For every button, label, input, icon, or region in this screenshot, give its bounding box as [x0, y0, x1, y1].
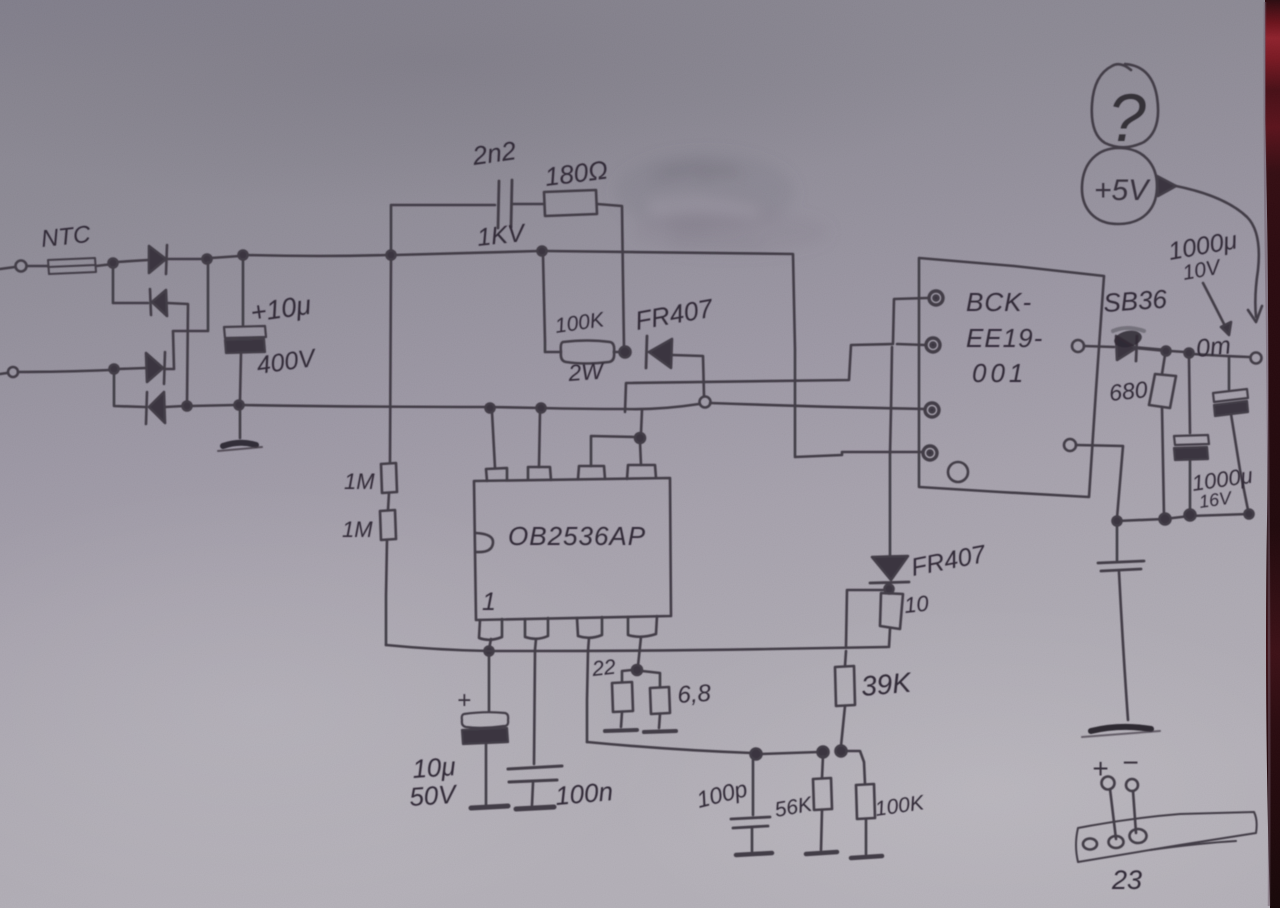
wire node J left to 22R: [622, 670, 632, 682]
wire pin3 bottom riser through rail down to feedback rail: [587, 638, 589, 742]
wire open node G to transformer pin3: [710, 403, 925, 409]
connector board outline: [1076, 812, 1257, 862]
resistor 39K body: [835, 666, 855, 706]
IC U1 notch: [476, 533, 493, 552]
connector + pad circle: [1102, 777, 1115, 790]
node E junction: [538, 247, 547, 256]
svg-text:OB2536AP: OB2536AP: [508, 521, 646, 551]
node ground rail 16V cap: [1185, 510, 1196, 521]
wire terminal to NTC: [27, 265, 48, 268]
ground bar 56K: [806, 852, 837, 854]
wire bulk cap positive lead: [242, 259, 245, 325]
node ground rail right: [1245, 510, 1254, 519]
node A junction: [109, 259, 118, 268]
svg-text:22: 22: [590, 656, 617, 681]
node D junction: [387, 251, 396, 260]
wire pin8 riser to HV- rail: [492, 412, 495, 468]
terminal AC1: [16, 261, 27, 272]
wire node B to node C: [211, 256, 240, 258]
resistor 680 body: [1149, 374, 1176, 408]
wire node I up to drain wire: [641, 410, 642, 433]
wire drain branch along y410 to open node G: [625, 404, 699, 409]
resistor 180R body: [544, 190, 597, 216]
diode SB36 cathode bar: [1136, 336, 1137, 361]
resistor 10R body: [880, 593, 903, 629]
chassis ground bar: [1091, 727, 1151, 731]
svg-text:BCK-: BCK-: [966, 287, 1032, 317]
wire bypass around 10R: [846, 590, 885, 646]
wire 2n2 to 180R: [513, 203, 543, 206]
capacitor 1000u16V bottom plate filled: [1174, 447, 1208, 460]
wire 180R right down to node F: [597, 204, 624, 348]
wire 100n bottom stub: [532, 783, 533, 805]
svg-text:?: ?: [1108, 80, 1146, 156]
wire between 1M resistors: [388, 493, 389, 510]
transformer extra circle mark: [948, 462, 968, 482]
wire AC line input top: [0, 267, 15, 269]
curvy arrow from +5V bubble to output: [1176, 186, 1259, 317]
wire node A down to D2: [113, 267, 148, 303]
wire feedback rail from pin3 to 100p node: [587, 742, 752, 753]
capacitor 1000u10V bottom plate filled: [1214, 401, 1248, 416]
IC U1 OB2536AP body: [474, 478, 671, 620]
wire 1000u10V bottom lead slanted to rail: [1231, 414, 1248, 510]
node 39K-100K junction: [836, 746, 847, 757]
wire D2 to drop at x188 down to HV- rail: [167, 303, 188, 405]
label arrow 1000u10V to wire: [1203, 283, 1227, 330]
ground symbol 6.8R: [644, 731, 676, 732]
diode D1 bridge top: [149, 246, 166, 273]
wire 6.8R bottom stub: [659, 714, 660, 728]
open node G connector circle: [700, 397, 711, 408]
resistor 100K body: [856, 784, 875, 819]
NTC thermistor body: [48, 258, 96, 274]
node J junction below pin4: [632, 665, 642, 675]
wire - pad to board pad: [1133, 791, 1136, 833]
wire output run under 0m label to terminal: [1193, 354, 1249, 357]
wire pin6 riser and over to node I: [591, 436, 634, 466]
node ground rail left: [1113, 517, 1122, 526]
transformer T1 BCK-EE19-001 body: [919, 258, 1104, 497]
IC pin 6 top tab: [578, 466, 605, 479]
svg-text:680: 680: [1108, 376, 1149, 406]
wire D1 to node B: [167, 258, 205, 261]
IC pin 3 bottom tab: [577, 617, 602, 638]
capacitor 10u400V bottom plate filled: [225, 339, 265, 353]
svg-text:1: 1: [482, 588, 496, 616]
wire ground stub below HV- rail: [239, 410, 242, 438]
ground symbol 22R: [605, 730, 637, 731]
wire node A to diode D1: [117, 260, 148, 262]
node pin1 rail junction: [485, 647, 494, 656]
wire pin2 bottom riser: [535, 639, 536, 650]
node H1 pin8 riser: [486, 404, 495, 413]
wire FR407 anode to corner down to open node G: [672, 355, 704, 396]
svg-text:−: −: [1122, 747, 1138, 778]
wire Y-cap top lead: [1116, 525, 1119, 560]
svg-text:100n: 100n: [554, 776, 614, 811]
wire 680 top stub: [1162, 355, 1165, 374]
IC pin 5 top tab: [627, 465, 656, 479]
capacitor 100p bottom plate: [733, 826, 768, 828]
svg-text:2W: 2W: [567, 357, 607, 386]
wire pin4 bottom riser to node J: [638, 637, 641, 666]
wire feedback rail 100p node to 56K node: [761, 752, 819, 754]
transformer secondary pin S1: [1072, 340, 1084, 352]
svg-text:1M: 1M: [344, 469, 375, 494]
ground bar 100K: [851, 856, 882, 858]
resistor 22R body: [612, 682, 633, 712]
wire 56K bottom stub: [821, 810, 822, 850]
wire D4 to node F2: [165, 406, 184, 407]
transformer secondary pin S2: [1064, 439, 1076, 451]
wire node A2 down to HV- rail corner: [114, 373, 145, 407]
IC pin 7 top tab: [528, 467, 551, 480]
curvy arrow head: [1248, 306, 1262, 322]
wire rail from 1M corner to 10R junction: [386, 645, 887, 651]
ground bar 10u50V: [471, 806, 508, 808]
wire 10u50V negative lead: [485, 744, 488, 805]
IC pin 4 bottom tab: [628, 616, 657, 637]
svg-text:1KV: 1KV: [476, 219, 528, 252]
diode D3: [146, 353, 163, 382]
diode FR407 primary clamp cathode bar: [646, 336, 647, 368]
connector board pad hole 2: [1109, 836, 1124, 848]
wire 1M chain top from node D crossing HV- rail: [390, 259, 391, 463]
transformer pin 3 primary: [925, 403, 939, 417]
wire 100n riser from rail: [534, 652, 535, 764]
connector board pad hole 3: [1130, 829, 1147, 843]
svg-text:6,8: 6,8: [677, 680, 713, 709]
node 56K junction: [818, 747, 829, 758]
wire 10u50V cap positive lead from pin1 node: [488, 655, 491, 711]
terminal AC2: [8, 367, 18, 377]
node ground rail 680: [1160, 514, 1171, 525]
capacitor 100p top plate: [731, 817, 770, 819]
wire 1000u16V bottom lead: [1189, 460, 1192, 511]
svg-text:+5V: +5V: [1094, 174, 1151, 207]
+5V pointer triangle: [1157, 176, 1176, 196]
pencil smudge above SB36: [1113, 328, 1144, 349]
diode SB36 body: [1116, 336, 1136, 360]
resistor 1M upper body: [381, 463, 397, 493]
IC pin 8 top tab: [486, 468, 507, 481]
wire 680 bottom to ground rail: [1162, 407, 1164, 516]
svg-text:SB36: SB36: [1102, 284, 1168, 318]
wire junction x893 right to pin2 of transformer: [897, 344, 925, 345]
wire snubber2 vertical from drain junction down to FR407: [890, 347, 892, 556]
wire 10R bottom to rail junction: [889, 629, 890, 647]
node F junction snubber: [620, 347, 631, 358]
svg-text:+: +: [1092, 753, 1108, 784]
question mark circle: [1092, 64, 1158, 147]
capacitor 2n2 1KV plates: [498, 181, 499, 228]
svg-text:NTC: NTC: [40, 221, 93, 253]
wire drain run: corner x625 up and right to transformer pins 1-2: [625, 344, 893, 412]
IC pin 2 bottom tab: [525, 618, 548, 639]
wire D3 zigzag up to node B: [165, 262, 208, 369]
wire 56K top stub: [822, 756, 823, 778]
diode FR407 secondary clamp cathode bar: [870, 582, 909, 583]
wire 1000u16V cap top lead: [1189, 357, 1190, 433]
wire 1M chain down to pin1 rail corner: [386, 540, 387, 645]
capacitor 1000u16V top plate: [1174, 435, 1209, 445]
ground symbol bulk cap: [223, 443, 256, 446]
diode D2 bridge second: [150, 289, 151, 315]
wire node J right to 6.8R: [642, 671, 660, 687]
wire HV- rail F2 to cap node: [191, 405, 236, 406]
capacitor 100n bottom plate: [509, 780, 557, 782]
wire HV- rail to IC pin riser nodes and corner: [243, 405, 624, 409]
transformer pin 4 primary: [923, 446, 937, 460]
wire AC line input bottom: [0, 373, 7, 374]
wire 2n2 branch up from node D: [391, 205, 495, 251]
wire 22R bottom stub: [621, 712, 622, 727]
wire Y-cap long lead down: [1119, 572, 1128, 720]
wire + pad to board pad: [1110, 789, 1116, 839]
svg-text:1M: 1M: [342, 517, 373, 542]
svg-text:23: 23: [1111, 865, 1142, 895]
node G2 junction bulk cap ground: [235, 401, 244, 410]
wire 100K bottom stub: [865, 819, 868, 854]
svg-text:2n2: 2n2: [470, 135, 519, 171]
svg-text:001: 001: [972, 358, 1027, 388]
wire to cap junction: [1170, 351, 1185, 352]
svg-text:50V: 50V: [408, 779, 459, 812]
capacitor Y-cap bottom plate: [1101, 569, 1141, 571]
IC pin 1 bottom tab: [479, 619, 502, 640]
wire HV+ rail node E to corner then down to transformer pin4: [546, 251, 922, 457]
node F2 junction: [183, 402, 192, 411]
wire NTC to node A: [96, 264, 113, 266]
svg-text:+: +: [457, 687, 471, 714]
connector board pad hole 1: [1083, 839, 1097, 850]
capacitor 10u50V top plate: [462, 712, 508, 728]
label arrow head: [1221, 322, 1231, 335]
wire pin7 riser to HV- rail: [539, 412, 540, 467]
red strip at right edge: [1265, 0, 1280, 908]
wire node A2 to diode D3: [118, 368, 146, 369]
node output cap junction: [1185, 349, 1194, 358]
capacitor 1000u10V top plate: [1213, 389, 1248, 402]
resistor 1M lower body: [380, 510, 396, 540]
terminal output +5V circle: [1251, 353, 1262, 364]
wire 100p down lead: [752, 758, 755, 815]
ground bar 100p: [736, 853, 772, 855]
wire 39K top stub from rail junction: [845, 651, 846, 666]
ground bar 100n: [516, 807, 554, 809]
wire 39K bottom to node: [841, 706, 845, 746]
node 100p junction: [751, 749, 762, 760]
wire bulk cap negative lead: [240, 353, 241, 401]
eraser smudge area: [615, 152, 830, 254]
node H2 pin7 riser: [537, 404, 546, 413]
wire S2 to secondary ground rail corner: [1076, 445, 1123, 518]
wire 100p bottom stub: [751, 828, 754, 851]
wire 1000u10V cap top lead: [1228, 357, 1231, 389]
wire 100K2W right to node F: [614, 351, 620, 354]
connector board inner line: [1150, 841, 1236, 850]
+5V circle: [1082, 148, 1157, 224]
wire terminal AC2 to node A2: [18, 370, 110, 372]
wire S1 to SB36: [1084, 346, 1114, 347]
transformer pin 2 primary: [926, 338, 940, 352]
capacitor 10u400V top plate: [224, 326, 266, 338]
capacitor Y-cap top plate: [1098, 561, 1144, 563]
wire HV+ rail node C to node D: [247, 255, 388, 256]
diode FR407 secondary clamp body: [872, 556, 908, 580]
diode D4 on HV- rail: [146, 392, 147, 424]
capacitor 10u50V bottom plate filled: [462, 728, 508, 744]
wire secondary ground rail: [1117, 514, 1249, 521]
wire SB36 to output terminal: [1139, 348, 1161, 350]
svg-text:10: 10: [903, 590, 931, 618]
resistor 100K 2W body: [561, 341, 614, 364]
capacitor 100n top plate: [508, 766, 562, 769]
wire pin1 bottom riser to VCC rail: [489, 639, 491, 649]
svg-text:0m: 0m: [1195, 331, 1232, 362]
resistor 56K body: [813, 778, 832, 810]
wire 39K-100K node right and down to 100K: [846, 751, 865, 784]
resistor 6.8R body: [650, 687, 670, 714]
node C junction: [239, 251, 248, 260]
diode FR407 primary clamp body: [649, 339, 672, 368]
svg-text:39K: 39K: [860, 667, 914, 702]
wire junction x893 up to pin1 of transformer: [893, 298, 927, 343]
node I drain junction: [635, 433, 645, 443]
connector - pad circle: [1126, 779, 1138, 791]
svg-text:EE19-: EE19-: [966, 323, 1043, 353]
wire HV+ rail node D to node E: [395, 251, 539, 255]
node output 680 junction: [1162, 347, 1171, 356]
node A2 junction: [110, 365, 119, 374]
transformer pin 1 primary: [929, 291, 943, 305]
node B junction: [203, 255, 212, 264]
node below FR407 clamp: [885, 585, 894, 594]
wire pin5 riser to node I: [640, 442, 641, 465]
wire 100K2W left lead from node E: [543, 255, 560, 352]
